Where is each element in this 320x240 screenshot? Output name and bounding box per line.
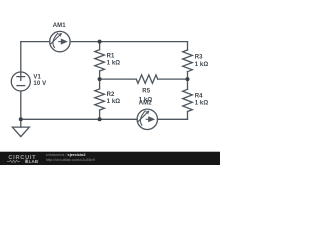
node dot R3/R4 junction bbox=[186, 77, 190, 81]
svg-text:10 V: 10 V bbox=[33, 81, 46, 87]
node dot bottom of R2 branch bbox=[98, 117, 102, 121]
watermark logo LAB bbox=[25, 160, 28, 163]
svg-text:1 kΩ: 1 kΩ bbox=[195, 101, 209, 107]
node dot ground junction bbox=[19, 117, 23, 121]
node dot top of R1 branch bbox=[98, 40, 102, 44]
wire right rail bbox=[187, 42, 189, 120]
wire left rail upper bbox=[20, 42, 22, 72]
ammeter AM2 bbox=[137, 109, 157, 129]
wire top rail left of AM1 bbox=[21, 41, 50, 43]
svg-text:R4: R4 bbox=[195, 93, 203, 99]
resistor R2 bbox=[95, 89, 105, 110]
svg-text:AM2: AM2 bbox=[139, 100, 153, 106]
svg-text:1 kΩ: 1 kΩ bbox=[195, 62, 209, 68]
wire middle rail right of R5 bbox=[158, 78, 188, 80]
resistor R5 bbox=[136, 75, 158, 83]
wire middle branch leads bbox=[99, 42, 101, 120]
resistor R1 bbox=[95, 50, 105, 71]
svg-text:LAB: LAB bbox=[29, 159, 39, 164]
watermark bar bbox=[0, 152, 220, 165]
ground bbox=[12, 119, 29, 136]
svg-text:1 kΩ: 1 kΩ bbox=[107, 99, 121, 105]
resistor R3 bbox=[183, 50, 193, 72]
svg-text:R2: R2 bbox=[107, 92, 115, 98]
wire top rail right of AM1 bbox=[70, 41, 187, 43]
svg-text:R5: R5 bbox=[142, 89, 150, 95]
svg-text:V1: V1 bbox=[33, 75, 41, 81]
watermark logo resistor glyph bbox=[7, 160, 20, 163]
wire left rail lower bbox=[20, 91, 22, 119]
node dot R1/R2 junction bbox=[98, 77, 102, 81]
wire bottom rail left of AM2 bbox=[21, 118, 137, 120]
wire bottom rail right of AM2 bbox=[158, 118, 188, 120]
wire middle rail left of R5 bbox=[100, 78, 137, 80]
svg-text:http://circuitlab.com/c2u86v9: http://circuitlab.com/c2u86v9 bbox=[46, 157, 95, 162]
ammeter AM1 bbox=[50, 31, 70, 51]
voltage source V1 bbox=[11, 72, 30, 91]
resistor R4 bbox=[183, 89, 193, 111]
svg-text:R3: R3 bbox=[195, 55, 203, 61]
svg-text:AM1: AM1 bbox=[53, 23, 67, 29]
svg-text:R1: R1 bbox=[107, 53, 115, 59]
svg-text:1 kΩ: 1 kΩ bbox=[107, 60, 121, 66]
